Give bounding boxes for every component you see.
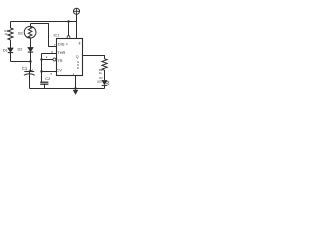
node CV junction — [40, 70, 42, 72]
wire C2 to ground rail — [44, 84, 46, 88]
svg-text:TR: TR — [57, 58, 62, 63]
wire R1 to D1 — [10, 40, 12, 48]
svg-text:D: D — [77, 66, 79, 70]
svg-text:D2: D2 — [18, 48, 23, 52]
wire D1-D2 connector — [11, 61, 31, 63]
svg-text:C1: C1 — [22, 66, 28, 71]
resistor R2 — [102, 59, 107, 70]
wire THR chain vertical — [41, 54, 43, 83]
LED D3 — [102, 80, 107, 84]
wire D1 down — [10, 53, 12, 62]
svg-text:CV: CV — [56, 68, 62, 73]
svg-text:IC1: IC1 — [54, 34, 60, 38]
ground — [73, 90, 78, 94]
wire C1 to ground rail — [29, 74, 31, 88]
capacitor C1 — [24, 71, 34, 73]
lamp L1 — [24, 26, 36, 38]
node D1-D2 junction — [29, 60, 31, 62]
capacitor C2 — [40, 81, 48, 83]
wire lamp to DIS pin — [31, 24, 57, 47]
wire Q output pin 3 — [83, 56, 105, 59]
wire GND pin 1 — [75, 76, 77, 91]
wire lamp to D2 — [30, 38, 32, 48]
diode D1 — [8, 48, 14, 53]
svg-text:C2: C2 — [45, 76, 51, 81]
node V+ junction — [67, 20, 69, 22]
diode D2 — [28, 47, 34, 52]
node TR junction — [40, 58, 42, 60]
svg-text:THR: THR — [57, 50, 65, 55]
svg-text:2: 2 — [46, 55, 48, 59]
op IC1 555 box — [57, 39, 83, 76]
wire LED to ground rail — [104, 85, 106, 88]
wire R2 to LED — [104, 70, 106, 80]
wire ground rail — [30, 88, 105, 90]
svg-text:8: 8 — [79, 41, 81, 45]
wire TR pin 2 — [42, 59, 53, 61]
svg-text:LED: LED — [97, 79, 102, 83]
wire D2 to C1 — [30, 52, 31, 74]
svg-text:D1: D1 — [3, 49, 8, 53]
resistor R1 — [8, 28, 13, 40]
svg-text:DIS: DIS — [58, 41, 65, 46]
wire lamp stub — [30, 24, 32, 27]
wire V+ pin 8 — [76, 14, 78, 38]
power supply positive terminal — [73, 8, 79, 14]
wire reset pin 4 — [68, 22, 70, 36]
svg-text:5: 5 — [50, 72, 52, 76]
svg-text:Q: Q — [76, 55, 79, 59]
svg-text:B1: B1 — [18, 32, 23, 36]
wire R1 branch top — [10, 22, 12, 29]
wire V+ rail top — [11, 21, 77, 23]
wire CV pin 5 — [42, 71, 57, 73]
wire THR pin 6 — [42, 53, 57, 55]
